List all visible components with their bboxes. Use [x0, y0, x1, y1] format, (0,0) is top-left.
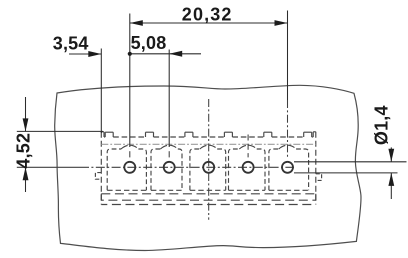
svg-text:4,52: 4,52	[13, 133, 33, 169]
svg-text:3,54: 3,54	[53, 33, 89, 53]
svg-text:20,32: 20,32	[182, 5, 233, 25]
svg-text:Ø1,4: Ø1,4	[372, 105, 392, 145]
svg-text:5,08: 5,08	[131, 33, 167, 53]
